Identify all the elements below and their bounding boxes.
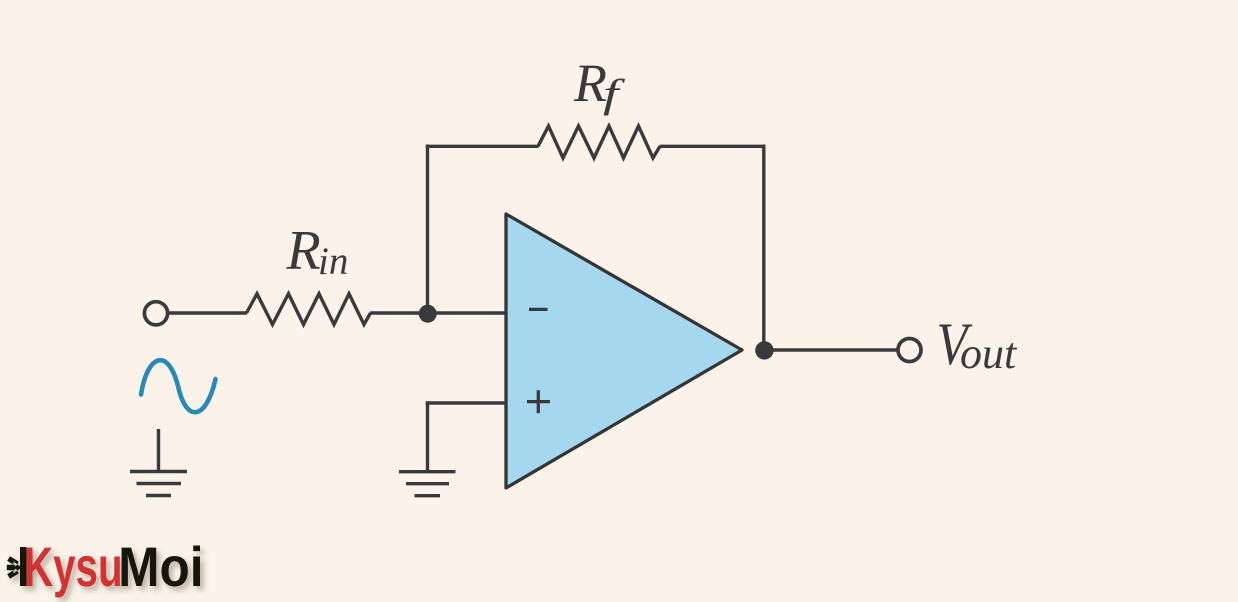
- resistor Rin: [247, 294, 371, 325]
- AC source sine wave: [141, 360, 216, 412]
- logo mark: [7, 556, 22, 578]
- op-amp U1: [506, 214, 742, 488]
- input terminal circle: [144, 302, 167, 325]
- svg-text:R: R: [286, 220, 321, 282]
- svg-text:Moi: Moi: [118, 536, 203, 598]
- svg-text:in: in: [318, 240, 348, 283]
- wire source ground stem: [157, 429, 160, 471]
- logo text Moi: [118, 536, 203, 598]
- op-amp minus sign: [529, 308, 548, 311]
- wire feedback right vertical: [762, 145, 765, 351]
- wire non-inverting ground stem: [426, 403, 429, 471]
- wire feedback top left horizontal: [426, 145, 539, 148]
- svg-text:R: R: [573, 53, 607, 113]
- wire feedback top right horizontal: [660, 145, 766, 148]
- wire input terminal to Rin: [168, 311, 247, 314]
- output terminal circle: [898, 339, 921, 362]
- wire output: [764, 348, 898, 351]
- wire Rin to inverting input: [370, 311, 506, 314]
- op-amp plus sign: [527, 400, 550, 403]
- logo text Kysu: [24, 537, 123, 599]
- wire non-inverting input: [426, 401, 506, 404]
- svg-text:Kysu: Kysu: [24, 537, 123, 599]
- ground non-inverting input: [399, 470, 456, 473]
- wire feedback left vertical: [426, 145, 429, 314]
- ground source: [130, 470, 187, 473]
- resistor Rf: [538, 126, 660, 158]
- label Vout: [937, 311, 974, 378]
- node B output junction: [755, 341, 773, 359]
- svg-text:out: out: [960, 329, 1018, 378]
- node A inverting input junction: [419, 305, 437, 323]
